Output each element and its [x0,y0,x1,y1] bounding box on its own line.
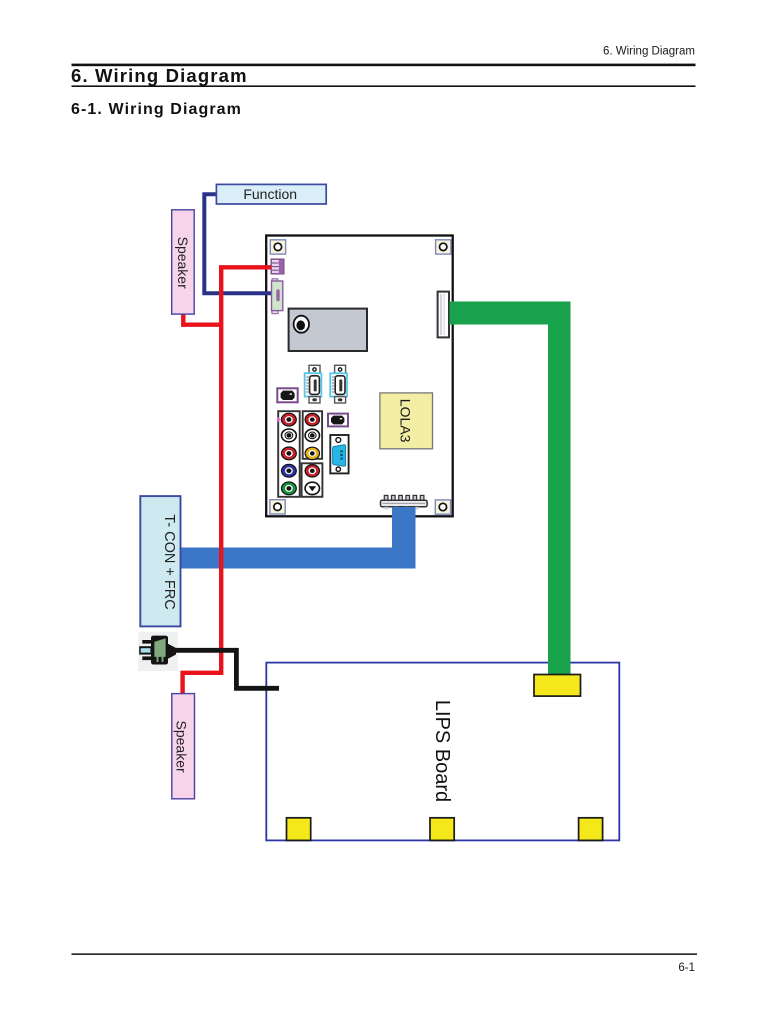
svg-text:T- CON + FRC: T- CON + FRC [161,514,177,609]
svg-text:LIPS Board: LIPS Board [431,700,453,802]
svg-text:6. Wiring Diagram: 6. Wiring Diagram [603,46,695,58]
svg-text:6-1: 6-1 [678,962,695,974]
svg-text:6. Wiring Diagram: 6. Wiring Diagram [71,65,248,86]
svg-text:LOLA3: LOLA3 [398,399,414,443]
svg-text:6-1. Wiring Diagram: 6-1. Wiring Diagram [71,101,242,118]
svg-text:Speaker: Speaker [175,237,191,289]
svg-text:Function: Function [243,186,297,202]
svg-text:Speaker: Speaker [174,721,190,773]
